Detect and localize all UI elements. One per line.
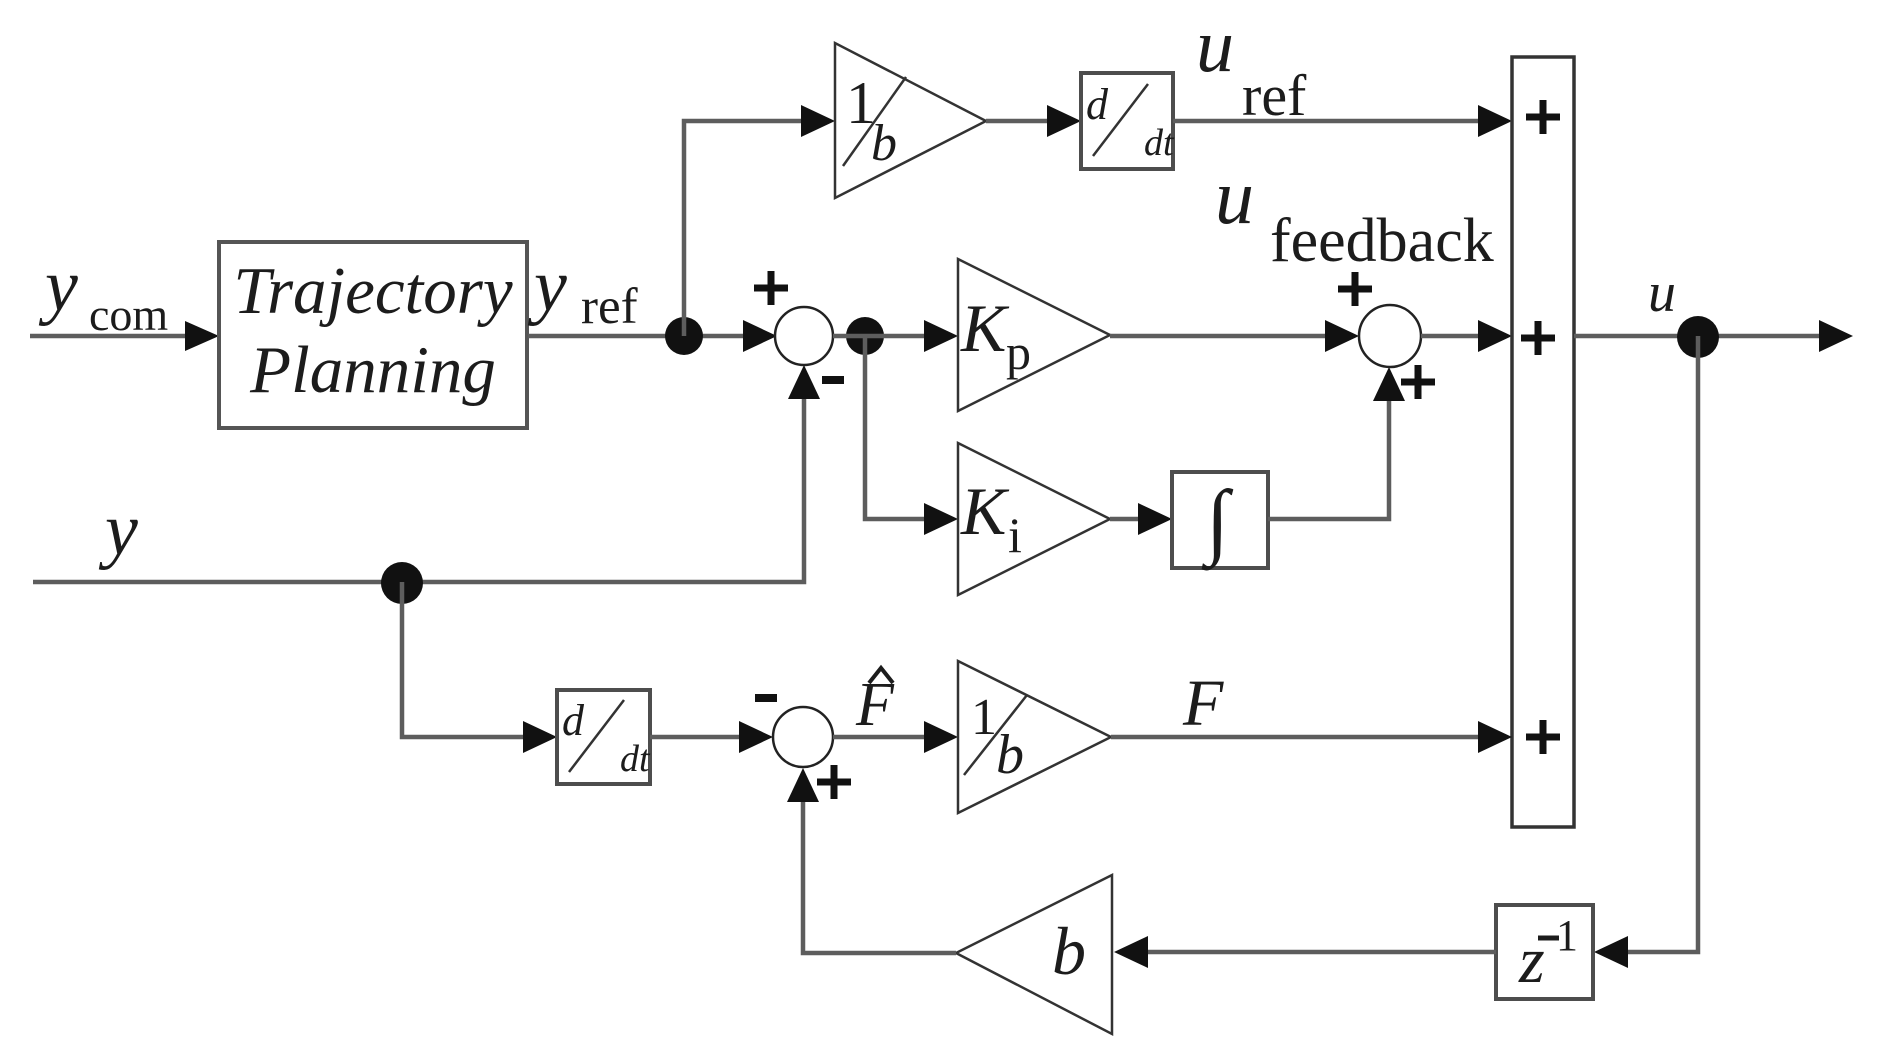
block z^-1 <box>1496 905 1593 999</box>
block d/dt (bottom derivative) <box>557 690 650 784</box>
svg-text:d: d <box>1086 80 1109 129</box>
gain 1/b (bottom) <box>958 661 1111 813</box>
wire b to S3 (left and up) <box>803 793 956 953</box>
wire integrator to S2 (up) <box>1268 392 1389 519</box>
svg-text:ref: ref <box>581 279 638 335</box>
block summation (tall) <box>1512 57 1574 827</box>
summer S2 <box>1359 305 1421 367</box>
summer S1 <box>775 307 833 365</box>
sign plus in block row2 <box>1521 321 1555 355</box>
svg-text:Planning: Planning <box>249 333 496 407</box>
svg-text:u: u <box>1196 4 1234 88</box>
wire F to sum block <box>1111 735 1487 740</box>
svg-text:feedback: feedback <box>1270 207 1494 275</box>
summer S3 <box>773 707 833 767</box>
gain Kp <box>958 259 1110 411</box>
sign plus S2 lower <box>1401 365 1435 399</box>
wire d/dt2 to S3 <box>650 735 748 740</box>
wire u feedback down to z-1 <box>1619 336 1698 952</box>
svg-text:p: p <box>1006 324 1031 380</box>
wire Kp to S2 <box>1110 334 1334 339</box>
svg-text:b: b <box>1052 913 1086 989</box>
wire y input <box>33 390 804 582</box>
svg-text:z: z <box>1518 924 1545 997</box>
wire Ki to integrator <box>1110 517 1147 522</box>
sign plus S2 upper <box>1338 272 1372 306</box>
svg-text:K: K <box>960 290 1010 366</box>
block Trajectory Planning <box>219 242 527 428</box>
sign plus in block row1 <box>1526 100 1560 134</box>
svg-text:K: K <box>960 473 1010 549</box>
sign plus in block row3 <box>1526 720 1560 754</box>
wire branch down to Ki <box>865 336 933 519</box>
svg-text:1: 1 <box>1556 911 1578 960</box>
wire u_ref <box>1173 119 1487 124</box>
wire output u <box>1574 334 1828 339</box>
svg-text:F: F <box>1182 667 1224 740</box>
wire y node down to d/dt2 <box>402 582 532 737</box>
wire z-1 to gain b <box>1139 950 1496 955</box>
block integrator <box>1172 472 1268 568</box>
sign plus S3 lower <box>817 765 851 799</box>
sign minus S1 <box>822 376 844 384</box>
svg-text:ref: ref <box>1242 63 1307 128</box>
block d/dt (top derivative) <box>1081 73 1173 169</box>
wire S1 to Kp <box>833 334 933 339</box>
wire S2 to sum block <box>1421 334 1487 339</box>
gain b (left pointing) <box>956 875 1112 1034</box>
wire S3 to 1/b bottom <box>833 735 933 740</box>
svg-text:y: y <box>98 489 138 571</box>
wire y_ref <box>528 334 752 339</box>
svg-text:dt: dt <box>1144 122 1175 164</box>
svg-text:u: u <box>1648 262 1676 324</box>
svg-text:com: com <box>89 289 168 340</box>
wire branch up to 1/b <box>684 121 810 336</box>
svg-text:b: b <box>996 724 1024 786</box>
node A (branch on y_ref) <box>665 317 703 355</box>
wire y_com input <box>30 334 193 339</box>
node y <box>381 562 423 604</box>
node B (after S1) <box>846 317 884 355</box>
svg-text:y: y <box>527 245 567 327</box>
sign plus S1 <box>754 271 788 305</box>
wire 1/b to d/dt <box>986 119 1056 124</box>
sign minus S3 <box>755 694 777 702</box>
svg-text:u: u <box>1215 153 1254 240</box>
svg-text:dt: dt <box>620 738 651 780</box>
svg-text:i: i <box>1008 507 1022 563</box>
gain Ki <box>958 443 1110 595</box>
gain 1/b (top) <box>835 43 986 198</box>
node u <box>1677 316 1719 358</box>
svg-text:y: y <box>38 245 78 327</box>
svg-text:b: b <box>871 115 897 172</box>
svg-text:Trajectory: Trajectory <box>233 254 512 328</box>
svg-text:d: d <box>562 696 585 745</box>
